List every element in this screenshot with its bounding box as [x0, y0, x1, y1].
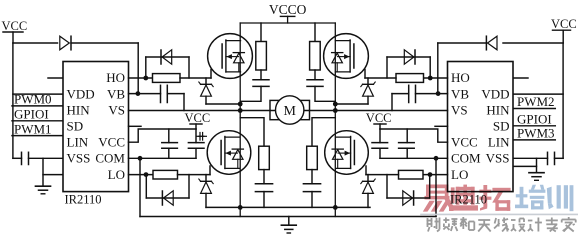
- resistor R2 gate low: [153, 170, 178, 179]
- wire snubber TR stub: [314, 23, 316, 42]
- op-amp driver U2 IR2110: [448, 62, 514, 192]
- wire gate low right: [366, 166, 399, 175]
- svg-text:VB: VB: [107, 86, 125, 101]
- capacitor C7 bootstrap: [392, 85, 416, 110]
- svg-text:PWM3: PWM3: [517, 126, 555, 141]
- pin labels U1 outer column: [95, 70, 125, 182]
- watermark slogan text: [427, 217, 576, 232]
- wire VDD to rail right: [513, 93, 563, 95]
- svg-text:VS: VS: [108, 103, 125, 118]
- transistor Q4 bottom right: [325, 131, 369, 175]
- label U2 IR2110: [450, 193, 487, 207]
- svg-text:VDD: VDD: [67, 86, 95, 101]
- capacitor C5 snubber TL: [240, 80, 269, 102]
- node LO junction left: [144, 172, 149, 177]
- capacitor C4 electrolytic: [188, 129, 206, 158]
- wire R3 to C5: [260, 70, 262, 80]
- capacitor C2 bootstrap: [161, 85, 185, 110]
- svg-text:HIN: HIN: [486, 103, 510, 118]
- wire low side source line: [206, 206, 370, 208]
- svg-text:IR2110: IR2110: [65, 193, 102, 207]
- wire VCC rail right: [562, 43, 564, 158]
- node VB junction right: [436, 91, 441, 96]
- wire VCC pin right: [380, 129, 448, 142]
- svg-text:PWM2: PWM2: [517, 94, 555, 109]
- svg-text:LO: LO: [108, 167, 125, 182]
- node PWM1 input: [12, 121, 63, 136]
- node COM junction right: [434, 156, 439, 161]
- pin stub U2 NC: [435, 125, 448, 127]
- pin stub U2 top outer: [513, 77, 528, 79]
- wire VS right: [336, 110, 448, 112]
- wire COM return left: [129, 157, 197, 159]
- wire diode to VB node right: [437, 43, 439, 94]
- diode D5 bootstrap: [438, 36, 497, 50]
- capacitor C3 ceramic: [162, 129, 178, 158]
- wire HO output left: [129, 77, 153, 79]
- pin labels U2 inner column: [481, 86, 510, 165]
- svg-text:VCC: VCC: [366, 111, 392, 125]
- capacitor C1 VSS filter: [13, 152, 63, 164]
- wire VDD to rail left: [13, 93, 63, 95]
- svg-text:VDD: VDD: [481, 86, 509, 101]
- wire R7 to C10: [314, 70, 316, 80]
- node HO junction left: [143, 76, 148, 81]
- wire VSS ground drop left: [43, 158, 63, 186]
- ground center: [281, 217, 296, 234]
- watermark logo yiditu text: [423, 185, 574, 212]
- node GPIOI input left: [12, 106, 63, 121]
- pin labels U1 inner column: [67, 86, 95, 165]
- wire VCC to bootstrap diode left: [13, 42, 58, 44]
- wire snubber TL stub: [260, 23, 262, 42]
- svg-text:VCC: VCC: [2, 19, 28, 33]
- power VCC left mid: [185, 111, 211, 129]
- node source left: [238, 205, 243, 210]
- wire VCC to bootstrap diode right: [503, 42, 563, 44]
- svg-text:VS: VS: [451, 103, 468, 118]
- watermark separator line: [421, 213, 578, 215]
- svg-text:VCC: VCC: [451, 134, 478, 149]
- wire COM to ground bus right: [435, 158, 437, 216]
- capacitor C11 snubber BL: [255, 184, 272, 208]
- node GPIOI input right: [513, 111, 555, 126]
- svg-text:HO: HO: [106, 70, 125, 85]
- svg-text:LO: LO: [451, 167, 468, 182]
- svg-text:HIN: HIN: [67, 103, 91, 118]
- motor M1 terminal box: [270, 100, 310, 119]
- motor M1: [276, 96, 304, 124]
- wire R4 to C11: [263, 170, 265, 184]
- power VCC right mid: [366, 111, 392, 129]
- node HO junction right: [428, 76, 433, 81]
- diode D7 antiparallel low: [387, 175, 430, 206]
- svg-text:COM: COM: [95, 151, 125, 166]
- wire VCC rail left: [12, 43, 14, 158]
- wire zener high to node left: [206, 103, 240, 105]
- svg-text:LIN: LIN: [488, 134, 510, 149]
- wire VCCO top rail: [240, 22, 335, 24]
- diode D3 antiparallel low: [146, 175, 189, 206]
- zener DZ3 gate high: [361, 78, 375, 104]
- node VB junction left: [136, 91, 141, 96]
- node switch B: [333, 102, 338, 113]
- transistor Q3 top right: [324, 34, 369, 79]
- wire VS left: [129, 110, 241, 112]
- resistor R4 snubber BL: [259, 146, 270, 169]
- wire motor right: [304, 110, 335, 112]
- pin labels U2 outer column: [451, 70, 481, 182]
- svg-text:LIN: LIN: [67, 134, 89, 149]
- wire right leg vertical: [334, 23, 336, 217]
- svg-text:GPIOI: GPIOI: [14, 106, 49, 121]
- wire VSS ground drop right: [513, 158, 537, 172]
- svg-text:HO: HO: [451, 70, 470, 85]
- wire LO output left: [129, 174, 154, 176]
- pin stub U1 top outer: [48, 77, 63, 79]
- wire gate high left: [180, 70, 211, 79]
- zener DZ2 gate low: [199, 175, 213, 208]
- ground left: [36, 186, 51, 194]
- capacitor C12 snubber BR: [303, 184, 320, 208]
- wire VB output right: [416, 93, 448, 95]
- wire zener high to node right: [336, 103, 368, 105]
- capacitor C8 ceramic: [399, 129, 415, 158]
- diode D1 bootstrap: [60, 36, 138, 50]
- svg-text:VCC: VCC: [98, 134, 125, 149]
- wire gate low left: [178, 166, 211, 175]
- node source right: [333, 205, 338, 210]
- diode D6 antiparallel high: [387, 50, 430, 78]
- op-amp driver U1 IR2110: [63, 62, 129, 192]
- svg-text:GPIOI: GPIOI: [517, 111, 552, 126]
- wire snubber BR stub: [312, 118, 335, 147]
- resistor R6 gate low: [399, 170, 424, 179]
- zener DZ1 gate high: [199, 78, 213, 104]
- wire R8 to C12: [311, 170, 313, 184]
- capacitor C10 snubber TR: [307, 80, 335, 102]
- node LO junction right: [428, 172, 433, 177]
- wire motor left: [240, 110, 275, 112]
- transistor Q2 bottom left: [207, 131, 251, 175]
- resistor R5 gate high: [396, 74, 424, 83]
- zener DZ4 gate low: [361, 175, 375, 208]
- power VCC right top: [551, 17, 577, 43]
- resistor R8 snubber BR: [307, 146, 318, 169]
- node PWM0 input: [12, 92, 63, 107]
- wire ground bus: [140, 216, 436, 218]
- power VCCO top: [269, 2, 307, 23]
- capacitor C6 VSS filter: [513, 152, 563, 164]
- node PWM2 input: [513, 94, 555, 109]
- wire diode to VB node left: [137, 43, 139, 94]
- svg-text:VSS: VSS: [67, 151, 91, 166]
- power VCC left top: [2, 19, 28, 43]
- wire COM to ground bus left: [139, 158, 141, 216]
- resistor R7 snubber TR: [310, 42, 321, 71]
- svg-text:VCCO: VCCO: [269, 2, 307, 17]
- wire LO output right: [423, 174, 448, 176]
- transistor Q1 top left: [208, 34, 253, 79]
- wire HO output right: [424, 77, 448, 79]
- ground right: [529, 173, 544, 181]
- svg-text:VSS: VSS: [486, 151, 510, 166]
- wire VB output left: [129, 93, 161, 95]
- svg-text:VCC: VCC: [551, 17, 577, 31]
- node PWM3 input: [513, 126, 555, 141]
- svg-text:PWM0: PWM0: [14, 92, 52, 107]
- svg-text:SD: SD: [493, 119, 510, 134]
- wire gate high right: [365, 70, 396, 79]
- wire VCC pin left: [129, 129, 197, 142]
- node switch A: [0, 0, 243, 113]
- diode D2 antiparallel high: [146, 50, 189, 78]
- svg-text:COM: COM: [451, 151, 481, 166]
- svg-text:VB: VB: [451, 86, 469, 101]
- wire COM return right: [380, 157, 448, 159]
- label U1 IR2110: [65, 193, 102, 207]
- svg-text:VCC: VCC: [185, 111, 211, 125]
- capacitor C9 electrolytic: [196, 129, 387, 158]
- svg-text:PWM1: PWM1: [14, 121, 52, 136]
- wire snubber BL stub: [240, 118, 264, 147]
- resistor R3 snubber TL: [256, 42, 267, 71]
- svg-text:M: M: [283, 104, 296, 119]
- svg-text:SD: SD: [67, 119, 84, 134]
- wire left leg vertical: [239, 23, 241, 217]
- node COM junction left: [138, 156, 143, 161]
- resistor R1 gate high: [153, 74, 181, 83]
- pin stub U1 NC: [129, 125, 142, 127]
